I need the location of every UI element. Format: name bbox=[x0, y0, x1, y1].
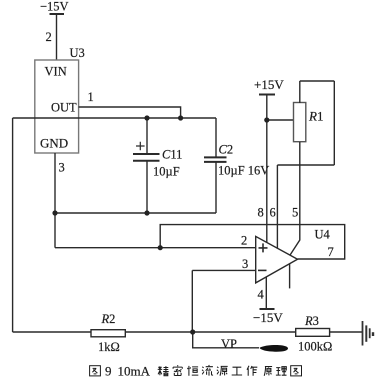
wire loop top bbox=[300, 80, 335, 82]
svg-text:10µF: 10µF bbox=[153, 165, 180, 179]
wire C2 bottom branch bbox=[215, 162, 217, 213]
wire pin6 drop to op-amp bbox=[276, 165, 278, 248]
node dot junction C11 top bbox=[144, 115, 149, 120]
svg-text:1kΩ: 1kΩ bbox=[98, 340, 120, 354]
svg-text:10mA: 10mA bbox=[118, 364, 151, 379]
svg-text:VIN: VIN bbox=[45, 65, 67, 79]
caption char zuo bbox=[247, 366, 257, 376]
node dot junction bottom rail VP bbox=[190, 329, 195, 334]
caption char heng bbox=[187, 366, 198, 376]
svg-text:8: 8 bbox=[258, 206, 264, 220]
wire +15V rail down to op-amp pin8 bbox=[266, 95, 268, 243]
svg-text:VP: VP bbox=[221, 337, 237, 351]
svg-text:OUT: OUT bbox=[51, 101, 77, 115]
svg-text:R3: R3 bbox=[304, 314, 319, 328]
svg-text:U4: U4 bbox=[315, 228, 331, 242]
op-amp plus input sign bbox=[259, 243, 268, 252]
C11 plus sign bbox=[136, 142, 145, 151]
svg-text:3: 3 bbox=[59, 161, 65, 175]
wire C11 top branch bbox=[146, 118, 148, 154]
caption char yuan2 bbox=[264, 367, 272, 376]
svg-text:R2: R2 bbox=[101, 312, 116, 326]
caption char yuan bbox=[217, 366, 228, 375]
wire wiper branch to R1 bbox=[267, 119, 294, 121]
regulator U3 box bbox=[35, 60, 79, 153]
svg-text:5: 5 bbox=[292, 206, 298, 220]
op-amp unconnected stub pin bbox=[289, 264, 291, 289]
capacitor C11 plates bbox=[133, 154, 160, 161]
wire feedback: +input up over to output pin7 bbox=[160, 225, 345, 259]
caption char tu2 bbox=[291, 366, 302, 376]
caption char gong bbox=[232, 367, 242, 375]
op-amp U4 triangle bbox=[256, 236, 298, 283]
svg-text:1: 1 bbox=[88, 90, 94, 104]
svg-text:−15V: −15V bbox=[40, 0, 69, 14]
caption figure title bbox=[90, 364, 302, 379]
node dot junction GND mid line bbox=[52, 210, 57, 215]
node dot junction OUT drop bbox=[178, 115, 183, 120]
power -15V bottom bar bbox=[260, 308, 275, 310]
wire R1 top lead bbox=[299, 81, 301, 103]
svg-text:7: 7 bbox=[328, 245, 334, 259]
power -15V top bar bbox=[50, 13, 65, 15]
wire loop bottom bbox=[277, 164, 334, 166]
wire -input drop to bottom rail bbox=[191, 270, 193, 332]
wire VP branch bbox=[193, 332, 259, 348]
wire bottom rail bbox=[13, 331, 363, 333]
wire pin2 from -15V bar to U3 VIN bbox=[56, 14, 58, 60]
op-amp minus input sign bbox=[258, 269, 267, 271]
caption char jing bbox=[158, 366, 169, 376]
svg-text:−15V: −15V bbox=[253, 310, 283, 325]
svg-text:4: 4 bbox=[258, 288, 265, 302]
svg-text:10µF 16V: 10µF 16V bbox=[218, 164, 269, 178]
caption char mi bbox=[173, 365, 182, 375]
wire R1 bottom lead to pin5 diagonal bbox=[290, 142, 300, 255]
svg-text:2: 2 bbox=[46, 30, 52, 44]
wire pin4 to -15V bbox=[265, 277, 267, 308]
svg-text:2: 2 bbox=[241, 234, 247, 248]
resistor R1 body bbox=[294, 103, 306, 142]
node dot junction +15V wiper bbox=[264, 117, 269, 122]
wire U3 GND pin3 down then right to op-amp +input bbox=[54, 153, 56, 248]
wire main horizontal node line y=118 bbox=[13, 117, 216, 119]
wire mid node line y=213 bbox=[55, 212, 216, 214]
svg-text:100kΩ: 100kΩ bbox=[298, 340, 332, 354]
wire C11 bottom branch bbox=[146, 161, 148, 213]
caption char tu bbox=[90, 366, 101, 376]
node dot junction C11 bottom bbox=[144, 210, 149, 215]
caption char li bbox=[276, 367, 287, 376]
node dot junction feedback +input bbox=[158, 245, 163, 250]
svg-text:3: 3 bbox=[242, 257, 248, 271]
svg-text:C11: C11 bbox=[162, 147, 182, 161]
svg-text:R1: R1 bbox=[308, 109, 323, 124]
svg-text:9: 9 bbox=[105, 364, 112, 379]
resistor R2 body bbox=[91, 330, 125, 337]
svg-text:+15V: +15V bbox=[254, 77, 284, 92]
ground symbol bbox=[363, 321, 374, 346]
wire -input line y=270.4 bbox=[192, 269, 255, 271]
svg-text:U3: U3 bbox=[70, 46, 85, 60]
caption char liu bbox=[202, 365, 213, 376]
power +15V bar bbox=[259, 94, 275, 96]
svg-text:C2: C2 bbox=[219, 143, 234, 157]
svg-text:6: 6 bbox=[270, 206, 276, 220]
svg-text:GND: GND bbox=[40, 136, 68, 151]
capacitor C2 plates bbox=[204, 157, 227, 162]
resistor R3 body bbox=[296, 329, 330, 337]
wire left rail bbox=[12, 118, 14, 332]
wire loop right bbox=[333, 81, 335, 165]
wire C2 top branch from y118 corner bbox=[215, 118, 217, 157]
wire +input line y=247.7 bbox=[55, 247, 256, 249]
VP probe blob bbox=[260, 345, 289, 352]
wire pin1 OUT going right then down bbox=[79, 107, 181, 118]
